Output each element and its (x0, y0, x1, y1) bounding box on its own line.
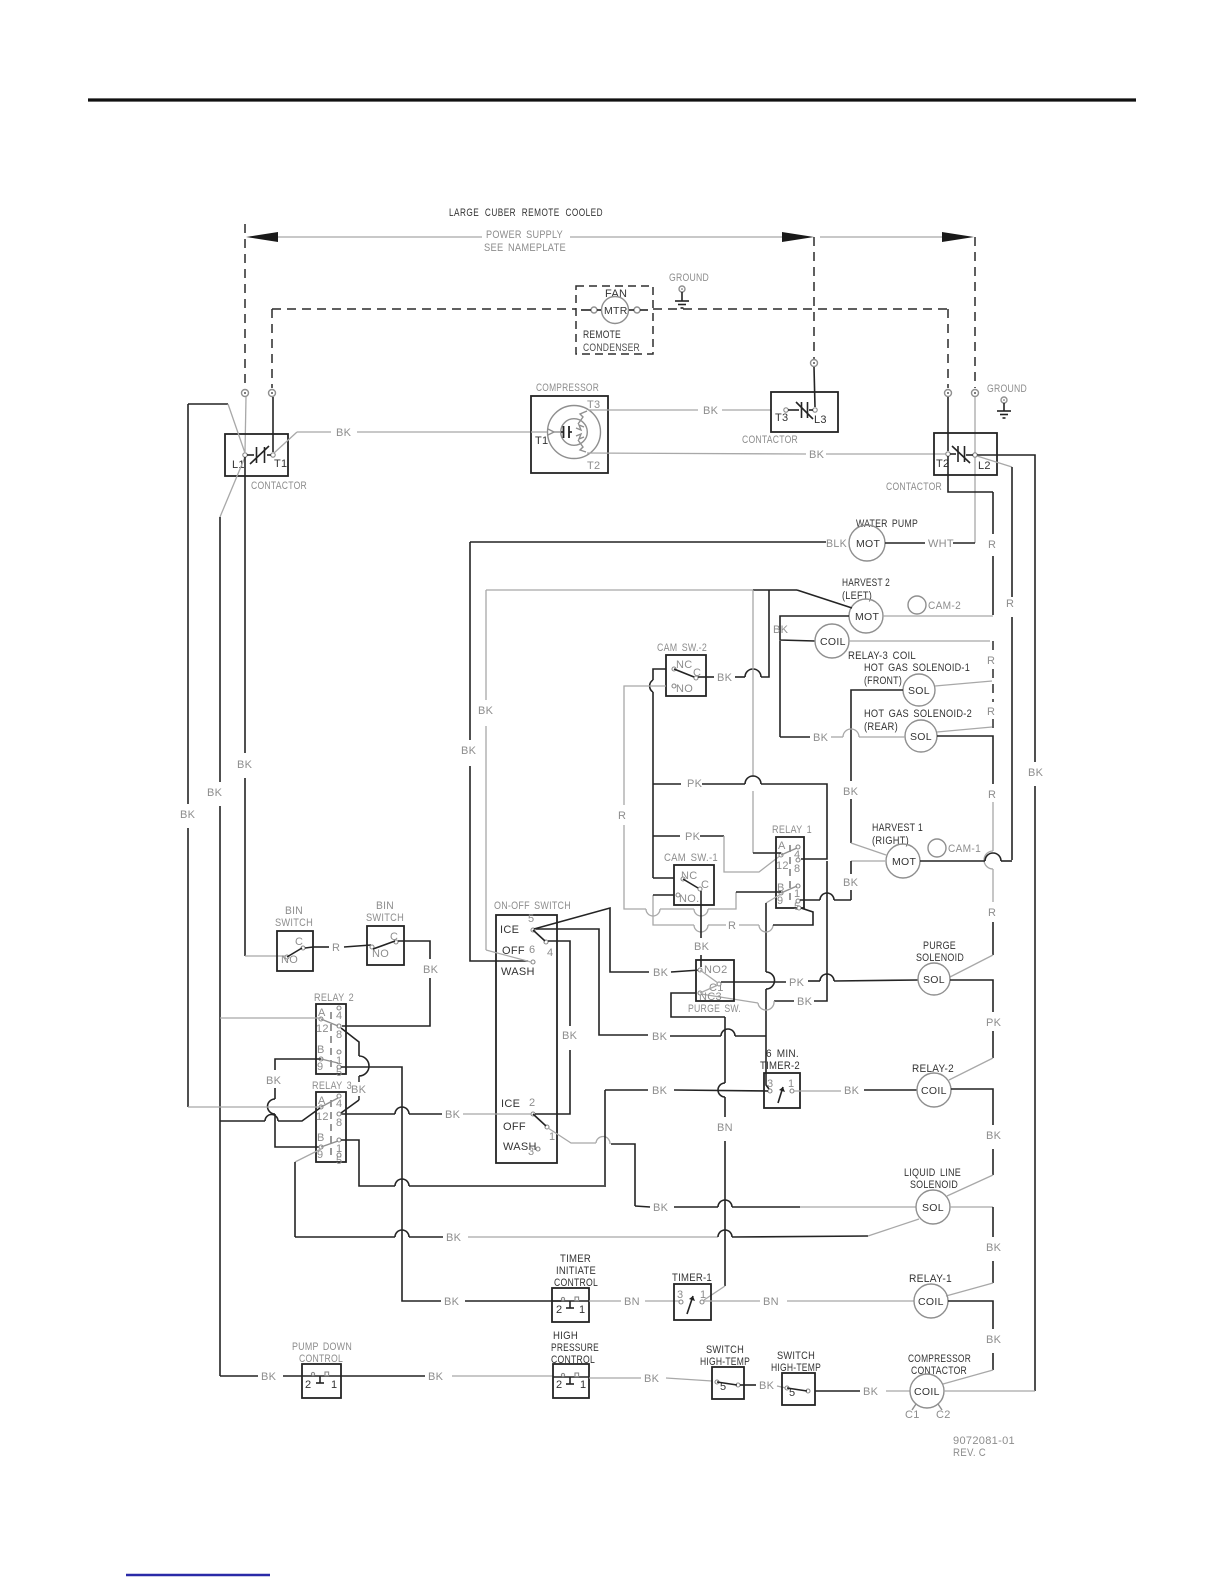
svg-text:SOL: SOL (910, 731, 932, 743)
contactor T2/L2 (886, 433, 997, 493)
wire BLK water pump feed (470, 538, 847, 550)
wire sol1 feed from BK riser x851 (843, 690, 903, 900)
svg-text:2: 2 (556, 1379, 562, 1391)
svg-text:BK: BK (843, 786, 859, 798)
wire relay-2 coil to chain BK (947, 1089, 1002, 1196)
purge solenoid (916, 940, 964, 995)
relay-3 coil (815, 624, 916, 662)
wire cam-sw1 NO left (653, 894, 674, 896)
wire sol1 diagonal to chain (935, 681, 992, 686)
wire relay3 pin9 diagonal to x294 riser (295, 1149, 321, 1237)
svg-text:COIL: COIL (914, 1386, 940, 1398)
chain dashed segment R 684-727 (987, 684, 995, 728)
svg-text:(RIGHT): (RIGHT) (872, 835, 909, 847)
svg-text:BN: BN (624, 1296, 640, 1308)
bin switch 1 (275, 905, 313, 971)
svg-text:MOT: MOT (856, 538, 881, 550)
svg-text:SOLENOID: SOLENOID (916, 952, 964, 964)
harvest 1 motor MOT (886, 844, 920, 878)
svg-text:R: R (987, 706, 995, 718)
svg-text:R: R (728, 920, 736, 932)
relay 3 (312, 1080, 352, 1167)
wire harvest1 mot to L2 riser with hop (920, 853, 1012, 861)
wire feed x486 to OFF-6 (478, 590, 531, 962)
svg-text:BK: BK (207, 787, 223, 799)
wire x220 branch to relay3 pin12 (220, 1108, 320, 1121)
wire corner feed to L1 (188, 404, 245, 453)
svg-text:PUMP DOWN: PUMP DOWN (292, 1341, 352, 1353)
chain dashed segment R 616-682 (987, 641, 995, 682)
svg-text:R: R (988, 789, 996, 801)
bin switch 2 (366, 900, 404, 965)
svg-text:NO.: NO. (679, 893, 699, 905)
wire BN timer initiate to timer-1 (589, 1296, 681, 1308)
svg-text:SWITCH: SWITCH (366, 912, 404, 924)
svg-text:12: 12 (776, 860, 789, 872)
svg-text:9: 9 (317, 1061, 323, 1073)
svg-text:COIL: COIL (918, 1296, 944, 1308)
svg-text:(LEFT): (LEFT) (842, 590, 872, 602)
svg-text:BN: BN (717, 1122, 733, 1134)
power feed dashed line L2 (974, 237, 976, 388)
svg-text:T1: T1 (535, 435, 548, 447)
svg-text:R: R (988, 907, 996, 919)
svg-text:1: 1 (788, 1078, 794, 1090)
terminal T2 right (945, 390, 952, 452)
harvest 2 motor MOT (849, 599, 883, 633)
remote condenser label (583, 329, 640, 354)
svg-text:RELAY 2: RELAY 2 (314, 992, 354, 1004)
relay-1 coil (909, 1273, 952, 1318)
svg-text:12: 12 (316, 1111, 329, 1123)
compressor contactor coil (905, 1353, 971, 1421)
wire ICE-5 diagonal riser x610 to purge NO2 (534, 908, 700, 979)
svg-text:HIGH: HIGH (553, 1330, 578, 1342)
svg-text:REV. C: REV. C (953, 1447, 986, 1459)
wire purge sol out PK chain (949, 980, 1002, 1080)
wire PK purge C1 to purge solenoid (721, 974, 918, 989)
wire BK label harvest2 (773, 624, 789, 636)
svg-text:TIMER-2: TIMER-2 (760, 1060, 800, 1072)
svg-text:HARVEST 1: HARVEST 1 (872, 822, 923, 834)
power feed dashed line to right contactor T2 (947, 309, 949, 388)
svg-text:12: 12 (316, 1023, 329, 1035)
switch high-temp 1 (700, 1344, 750, 1399)
svg-text:CAM SW.-1: CAM SW.-1 (664, 852, 718, 864)
svg-text:PK: PK (986, 1017, 1002, 1029)
svg-text:1: 1 (580, 1379, 586, 1391)
svg-text:GROUND: GROUND (987, 383, 1027, 395)
long gray riser x753 (752, 590, 754, 853)
wire harvest2 mot left branch (780, 616, 849, 641)
svg-text:BK: BK (461, 745, 477, 757)
svg-text:2: 2 (305, 1379, 311, 1391)
wire ICE-2 row to relay3 pin8 (341, 1107, 531, 1121)
svg-text:SWITCH: SWITCH (706, 1344, 744, 1356)
svg-text:8: 8 (336, 1117, 342, 1129)
contactor L1/T1 (225, 434, 307, 492)
svg-text:BK: BK (1028, 767, 1044, 779)
wire jog contactor bottom to x220 riser (220, 457, 245, 517)
svg-text:BK: BK (863, 1386, 879, 1398)
wire BK switch 2 to compressor contactor coil (815, 1386, 910, 1398)
svg-text:T1: T1 (274, 458, 287, 470)
svg-text:SOL: SOL (922, 1202, 944, 1214)
svg-text:BK: BK (813, 732, 829, 744)
svg-text:ICE: ICE (501, 1098, 520, 1110)
svg-text:B: B (317, 1044, 325, 1056)
svg-text:(REAR): (REAR) (864, 721, 898, 733)
svg-text:R: R (987, 655, 995, 667)
svg-text:WATER PUMP: WATER PUMP (856, 518, 918, 530)
terminal T1 (269, 390, 276, 453)
svg-text:RELAY-3 COIL: RELAY-3 COIL (848, 650, 916, 662)
svg-text:R: R (988, 539, 996, 551)
svg-text:ON-OFF SWITCH: ON-OFF SWITCH (494, 900, 571, 912)
pump down control (292, 1341, 352, 1398)
svg-text:LARGE CUBER REMOTE COOLED: LARGE CUBER REMOTE COOLED (449, 207, 603, 219)
6 min timer-2 (760, 1048, 800, 1108)
svg-text:BK: BK (237, 759, 253, 771)
svg-text:8: 8 (336, 1029, 342, 1041)
cam-2 sensor (908, 596, 961, 614)
svg-text:C2: C2 (936, 1409, 951, 1421)
wire L2 diagonal to riser x1012 R (977, 456, 1014, 860)
svg-text:BK: BK (797, 996, 813, 1008)
remote condenser dashed wire right (653, 308, 948, 310)
wire relay2 pinB to x275 riser (266, 1059, 321, 1147)
terminal L2 right (972, 390, 979, 544)
wire compressor T3 to contactor (588, 409, 771, 411)
wire BK high pressure to switch high-temp 1 (589, 1373, 712, 1385)
svg-text:4: 4 (547, 947, 553, 959)
wire compressor T2 to right contactor (587, 449, 946, 461)
svg-text:SWITCH: SWITCH (275, 917, 313, 929)
wire pin4 riser x570 to ICE-2 (535, 941, 578, 1114)
svg-text:5: 5 (336, 1155, 342, 1167)
svg-text:BK: BK (261, 1371, 277, 1383)
document number (953, 1435, 1015, 1459)
svg-text:1: 1 (794, 888, 800, 900)
svg-text:COIL: COIL (921, 1085, 947, 1097)
ground symbol right (987, 383, 1027, 418)
svg-text:SOLENOID: SOLENOID (910, 1179, 958, 1191)
svg-text:8: 8 (794, 863, 800, 875)
svg-text:INITIATE: INITIATE (556, 1265, 596, 1277)
timer-1 (672, 1272, 712, 1320)
svg-text:CONTACTOR: CONTACTOR (742, 434, 798, 446)
svg-text:9: 9 (777, 895, 783, 907)
power feed dashed line L3 (813, 237, 815, 359)
svg-text:CONDENSER: CONDENSER (583, 342, 640, 354)
svg-text:POWER SUPPLY: POWER SUPPLY (486, 229, 563, 241)
svg-text:6 MIN.: 6 MIN. (766, 1048, 799, 1060)
svg-text:PK: PK (685, 831, 701, 843)
svg-text:T3: T3 (587, 399, 600, 411)
wire relay1 pin9 diagonal to x766 riser (766, 894, 781, 1089)
svg-text:BK: BK (843, 877, 859, 889)
wire bin2 C to relay2 pin8 riser x430 (342, 941, 439, 1026)
svg-text:BK: BK (703, 405, 719, 417)
svg-text:LIQUID LINE: LIQUID LINE (904, 1167, 961, 1179)
svg-text:BK: BK (266, 1075, 282, 1087)
label POWER SUPPLY SEE NAMEPLATE (484, 229, 566, 254)
power supply dimension line with arrows (246, 232, 974, 242)
svg-text:CAM-1: CAM-1 (948, 843, 981, 855)
harvest 1 labels (872, 822, 923, 847)
hot gas solenoid-1 SOL (903, 674, 935, 706)
switch high-temp 2 (771, 1350, 821, 1405)
svg-text:MTR: MTR (604, 305, 628, 317)
svg-text:BLK: BLK (826, 538, 847, 550)
svg-text:BK: BK (445, 1109, 461, 1121)
svg-text:PRESSURE: PRESSURE (551, 1342, 599, 1354)
svg-text:HOT GAS SOLENOID-1: HOT GAS SOLENOID-1 (864, 662, 970, 674)
svg-text:WASH: WASH (501, 966, 535, 978)
svg-text:SWITCH: SWITCH (777, 1350, 815, 1362)
wire PK cam-sw2 to relay1 pin8 (653, 776, 827, 859)
hot gas solenoid-1 labels (864, 662, 970, 687)
hot gas solenoid-2 SOL (905, 720, 937, 752)
svg-text:HARVEST 2: HARVEST 2 (842, 577, 890, 589)
svg-text:CONTACTOR: CONTACTOR (886, 481, 942, 493)
svg-text:COMPRESSOR: COMPRESSOR (908, 1353, 971, 1365)
svg-text:PK: PK (789, 977, 805, 989)
svg-text:9072081-01: 9072081-01 (953, 1435, 1015, 1447)
hot gas solenoid-2 labels (864, 708, 972, 733)
svg-text:L2: L2 (978, 460, 991, 472)
svg-text:PURGE SW.: PURGE SW. (688, 1003, 741, 1015)
svg-text:BK: BK (478, 705, 494, 717)
svg-text:PURGE: PURGE (923, 940, 956, 952)
relay 1 (772, 824, 812, 913)
svg-text:BK: BK (986, 1242, 1002, 1254)
wire relay-3 coil to chain (849, 640, 990, 642)
svg-text:BIN: BIN (376, 900, 394, 912)
top rule (88, 98, 1136, 101)
svg-text:BK: BK (562, 1030, 578, 1042)
svg-text:HOT GAS SOLENOID-2: HOT GAS SOLENOID-2 (864, 708, 972, 720)
wire purge NC3 diagonal to BK run (701, 994, 774, 1010)
svg-text:BK: BK (809, 449, 825, 461)
svg-text:SOL: SOL (923, 974, 945, 986)
wire T2 down to chain riser x993 (948, 456, 996, 615)
svg-text:BN: BN (763, 1296, 779, 1308)
svg-text:BIN: BIN (285, 905, 303, 917)
svg-text:TIMER-1: TIMER-1 (672, 1272, 712, 1284)
svg-text:C1: C1 (905, 1409, 920, 1421)
svg-text:COMPRESSOR: COMPRESSOR (536, 382, 599, 394)
svg-text:BK: BK (653, 1202, 669, 1214)
relay-2 coil (912, 1063, 954, 1107)
wire timer2 pin1 to relay-2 coil (794, 1085, 917, 1097)
svg-text:3: 3 (528, 1146, 534, 1158)
remote condenser dashed wire left (272, 308, 576, 310)
svg-text:BK: BK (180, 809, 196, 821)
svg-text:BK: BK (844, 1085, 860, 1097)
svg-text:BK: BK (986, 1334, 1002, 1346)
svg-text:1: 1 (579, 1304, 585, 1316)
svg-text:BK: BK (717, 672, 733, 684)
svg-text:REMOTE: REMOTE (583, 329, 621, 341)
svg-text:BK: BK (428, 1371, 444, 1383)
wire feed x470 to WASH contact (461, 542, 528, 961)
svg-text:BK: BK (986, 1130, 1002, 1142)
svg-text:2: 2 (529, 1097, 535, 1109)
svg-text:RELAY-1: RELAY-1 (909, 1273, 952, 1285)
high pressure control (551, 1330, 599, 1398)
svg-text:5: 5 (528, 913, 534, 925)
svg-text:3: 3 (677, 1289, 683, 1301)
svg-text:3: 3 (767, 1078, 773, 1090)
svg-text:R: R (1006, 598, 1014, 610)
svg-text:A: A (778, 840, 786, 852)
bottom blue underline (126, 1574, 270, 1576)
svg-text:BK: BK (652, 1085, 668, 1097)
wire relay-1 coil to chain BK (943, 1301, 1002, 1384)
cam-1 sensor (928, 839, 981, 857)
svg-text:NC: NC (676, 659, 693, 671)
svg-text:SEE NAMEPLATE: SEE NAMEPLATE (484, 242, 566, 254)
timer initiate control (552, 1253, 598, 1322)
svg-text:CONTACTOR: CONTACTOR (251, 480, 307, 492)
wire riser x753 into relay1 pin12 (753, 852, 781, 854)
svg-text:BK: BK (644, 1373, 660, 1385)
svg-text:1: 1 (331, 1379, 337, 1391)
wire cam-sw2 NC riser x653 (650, 669, 674, 878)
fan motor MTR (581, 288, 648, 324)
svg-text:BK: BK (759, 1380, 775, 1392)
wire feed harvest2 from y590 bus (486, 590, 852, 608)
wire purge NC3 loop to BN riser (671, 993, 725, 1017)
wire PK branch to relay1 pin12 path (653, 831, 781, 872)
svg-text:SOL: SOL (908, 685, 930, 697)
on-off switch (494, 900, 571, 1163)
svg-text:BK: BK (351, 1084, 367, 1096)
wire BK x636 to liquid line solenoid (635, 1200, 916, 1214)
wire L2 to right bus x1035 (977, 455, 1044, 1391)
wire WHT water pump out (885, 538, 975, 550)
svg-text:TIMER: TIMER (560, 1253, 591, 1265)
svg-text:B: B (317, 1132, 325, 1144)
wire ICE common riser x599 (536, 929, 766, 1043)
wire BN timer-1 to relay-1 coil (704, 1296, 914, 1308)
water pump (849, 518, 918, 561)
wire sol2 diagonal to chain (937, 727, 992, 732)
wire relay2 pin1 to x402 riser (341, 1067, 561, 1308)
svg-text:4: 4 (336, 1098, 342, 1110)
wire cam-sw1 C down to purge NO2 (694, 891, 710, 967)
wire BK pump down to high pressure (341, 1371, 553, 1383)
svg-text:R: R (332, 942, 340, 954)
svg-text:6: 6 (529, 944, 535, 956)
contactor T3/L3 (742, 392, 838, 446)
wire R from cam-sw1 NO to relay1 bottom pin (653, 895, 813, 932)
svg-text:NO: NO (372, 948, 389, 960)
svg-text:2: 2 (556, 1304, 562, 1316)
svg-text:BK: BK (423, 964, 439, 976)
svg-text:BK: BK (694, 941, 710, 953)
power feed dashed line T1 drop (271, 309, 273, 388)
riser x827 relay1 pin8 feed continues to BK run (774, 861, 827, 1008)
wire pin1 bottom diagonal to x636 riser (548, 1128, 635, 1206)
svg-text:BK: BK (773, 624, 789, 636)
wire riser x244 to bin switch (237, 457, 285, 956)
terminal L1 (242, 390, 249, 453)
wire BK x220 to pump down (220, 1371, 302, 1383)
svg-text:PK: PK (687, 778, 703, 790)
terminal L3 (811, 360, 818, 408)
wire sol2 out to chain riser (937, 736, 996, 977)
svg-text:MOT: MOT (855, 611, 880, 623)
power feed dashed line L1 (244, 224, 246, 388)
ground symbol near fan (669, 272, 709, 308)
wire coil to right bus x1035 (944, 1390, 1035, 1392)
svg-text:1: 1 (700, 1289, 706, 1301)
wire harvest2 mot to chain (883, 615, 993, 617)
wire BK into timer2 pin3 (605, 1085, 768, 1097)
svg-text:T3: T3 (775, 412, 788, 424)
wire relay1 pinB left (736, 891, 781, 893)
wire BK x294 to liquid line via bottom run (295, 1219, 919, 1244)
svg-text:BK: BK (444, 1296, 460, 1308)
wire cam-sw2 NO R riser x624 (618, 686, 736, 916)
svg-text:COIL: COIL (820, 636, 846, 648)
wire R between bin switches (305, 942, 371, 954)
wire liquid line sol to chain BK (946, 1207, 1002, 1296)
liquid line solenoid (904, 1167, 961, 1224)
svg-text:MOT: MOT (892, 856, 917, 868)
svg-text:BK: BK (446, 1232, 462, 1244)
wire relay2 A/12 feed from x220 (220, 1017, 321, 1019)
wire relay3 pin1 to y1186 run (341, 1140, 604, 1186)
cam switch 2 (657, 642, 707, 696)
wire BK contactor to compressor T1 (274, 427, 531, 453)
wire BK label on T3 line (703, 405, 719, 417)
wire relay3 A/12 feed from x188 (188, 1106, 321, 1108)
svg-text:BK: BK (336, 427, 352, 439)
wire relay1 pin1/5 to x827 riser (800, 893, 851, 900)
svg-text:L3: L3 (814, 414, 827, 426)
svg-text:BK: BK (653, 967, 669, 979)
relay 2 (314, 992, 354, 1079)
harvest 2 labels (842, 577, 890, 602)
svg-text:ICE: ICE (500, 924, 519, 936)
wire BK between high-temp switches (740, 1380, 786, 1392)
title LARGE CUBER REMOTE COOLED (449, 207, 603, 219)
cam switch 1 (664, 852, 718, 905)
remote condenser dashed enclosure (576, 286, 653, 354)
wire cam-sw2 C out BK (698, 590, 769, 684)
svg-text:T2: T2 (587, 460, 600, 472)
svg-text:GROUND: GROUND (669, 272, 709, 284)
svg-text:BK: BK (652, 1031, 668, 1043)
purge switch (688, 960, 741, 1015)
svg-text:OFF: OFF (503, 1121, 526, 1133)
svg-text:RELAY 1: RELAY 1 (772, 824, 812, 836)
svg-text:NO2: NO2 (704, 964, 728, 976)
svg-text:R: R (618, 810, 626, 822)
svg-text:RELAY 3: RELAY 3 (312, 1080, 352, 1092)
svg-text:NO: NO (676, 683, 693, 695)
svg-text:WHT: WHT (928, 538, 954, 550)
wire left riser x220 (207, 517, 223, 1376)
wire relay2 pin8 dashed link to relay3 pin8 (341, 1028, 369, 1113)
wire left riser x188 (180, 404, 196, 1107)
wire sol2 feed from coil corner riser x780 (780, 641, 905, 744)
compressor (531, 382, 608, 473)
svg-text:4: 4 (336, 1010, 342, 1022)
